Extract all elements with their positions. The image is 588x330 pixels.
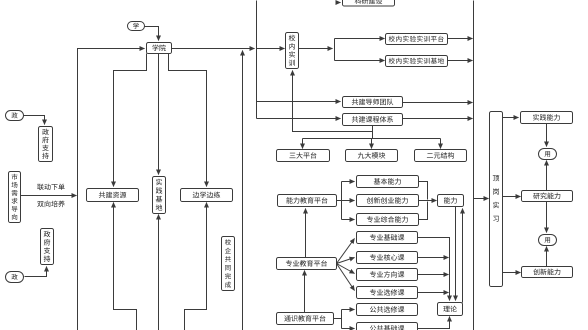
wire 实践能力→用(上) xyxy=(546,124,548,147)
wire 顶岗实习→实践能力 xyxy=(503,117,519,119)
box 基本能力 xyxy=(357,176,419,188)
box 专业方向课 xyxy=(357,269,418,281)
box 专业教育平台 xyxy=(277,258,337,270)
wire 专业教育平台→专业基础课 xyxy=(337,239,355,264)
wire 顶岗实习→创新能力 xyxy=(503,272,521,274)
wire →科研建设 xyxy=(337,2,341,4)
box 实践能力 xyxy=(521,112,573,124)
box 学院 xyxy=(147,43,172,54)
wire B1→共建导师团队 xyxy=(257,101,341,103)
wire 专业教育平台→专业方向课 xyxy=(337,264,355,274)
wire →九大模块 xyxy=(371,139,373,149)
wire 共建导师团队→右总线 xyxy=(403,102,473,104)
wire 能力教育平台→创新创业能力 xyxy=(337,200,355,202)
wire 左侧总线→学院 xyxy=(78,49,145,330)
wire 能力教育平台→基本能力 xyxy=(337,182,355,220)
wire 专业教育平台→专业核心课 xyxy=(337,258,355,264)
wire 分支→校内实验实训基地 xyxy=(335,60,385,62)
wire 右总线→顶岗实习 xyxy=(474,198,489,200)
wire 专业教育平台→专业选修课 xyxy=(337,264,355,291)
box 实践基地 xyxy=(153,177,166,214)
box 政府支持 (lower) xyxy=(41,229,54,265)
box 通识教育平台 xyxy=(277,313,334,325)
wire →三大平台 xyxy=(302,139,304,149)
wire 基本能力汇合 xyxy=(419,182,428,200)
wire 专业综合能力汇合 xyxy=(419,202,428,220)
wire 创新能力→用(下) xyxy=(546,247,548,267)
wire 分支→校内实验实训平台 xyxy=(335,38,385,40)
stadium 用 (upper) xyxy=(539,149,557,160)
box 校内实验实训基地 xyxy=(386,56,448,67)
wire 底部→共建资源 (上箭头) xyxy=(114,203,137,330)
box 专业选修课 xyxy=(357,287,418,299)
wire 右侧纵向总线 xyxy=(473,1,475,330)
stadium 学 xyxy=(128,22,145,31)
box 研究能力 xyxy=(522,191,573,202)
wire 底部→实践基地 (上箭头) xyxy=(158,215,160,330)
box 创新创业能力 xyxy=(357,195,419,207)
box 三大平台 xyxy=(277,150,330,162)
wire 理论→能力 xyxy=(462,209,464,303)
box 公共基础课 xyxy=(357,323,418,330)
wire 政→政府支持(lower) xyxy=(25,267,47,277)
wire 汇合→能力 xyxy=(419,200,437,202)
box 能力教育平台 xyxy=(278,195,337,207)
wire 基地→右总线 xyxy=(448,60,473,62)
wire 学院→右侧(至校内实训总线) xyxy=(172,48,255,50)
wire B1→校内实训 xyxy=(257,48,285,50)
wire 校内实训→分支括号 xyxy=(299,48,333,50)
wire 市场需求导向→左侧总线 xyxy=(21,195,77,197)
box 校内实训 xyxy=(286,33,299,69)
wire 共建课程体系→右总线 xyxy=(403,118,473,120)
wire 专业核心课→收集线 xyxy=(418,257,449,259)
box 专业基础课 xyxy=(357,232,418,244)
wire 专业基础课→理论 (收集线) xyxy=(418,238,450,301)
wire 通识教育平台→公共选修课 xyxy=(334,310,355,329)
box 校内实验实训平台 xyxy=(386,34,448,45)
wire 学院→共建资源 (阶梯) xyxy=(114,54,147,187)
box 科研建设 (顶部截断) xyxy=(343,0,395,6)
box 二元结构 xyxy=(415,150,467,162)
wire 通识教育平台→专业教育平台 xyxy=(304,271,306,313)
stadium 用 (lower) xyxy=(539,235,557,246)
wire 共建课程体系→三分支 xyxy=(372,126,374,139)
wire 分支括号竖线 xyxy=(334,39,336,61)
stadium 政 (bottom-left) xyxy=(6,272,24,283)
wire 专业方向课→收集线 xyxy=(418,274,449,276)
box 校企共同完成 xyxy=(222,237,235,291)
wire 政→政府支持(upper) xyxy=(24,116,45,125)
box 市场需求导向 xyxy=(9,172,21,223)
box 创新能力 xyxy=(522,267,573,278)
wire 研究能力→用(下) xyxy=(546,202,548,233)
wire 能力教育平台→专业综合能力 xyxy=(342,219,355,221)
label 联动下单 xyxy=(37,184,64,190)
box 理论 xyxy=(438,303,463,316)
box 专业核心课 xyxy=(357,252,418,264)
wire 学院→边学边练 (阶梯) xyxy=(169,54,207,187)
box 边学边练 xyxy=(181,189,233,202)
wire 汇合线→校内实训 (上箭头) xyxy=(293,71,373,132)
wire 下方总线→学院横线 (上箭头) xyxy=(242,51,244,330)
wire 能力→理论 xyxy=(455,207,457,301)
wire 底部→边学边练 (上箭头) xyxy=(185,203,207,330)
box 九大模块 xyxy=(346,150,398,162)
wire 顶岗实习→研究能力 xyxy=(503,196,521,198)
wire 研究能力→用(上) xyxy=(546,161,548,191)
box 共建课程体系 xyxy=(343,114,403,126)
stadium 政 (top-left) xyxy=(6,111,24,121)
wire 专业选修课→收集线 xyxy=(418,292,449,294)
box 能力 xyxy=(438,195,464,207)
wire 学院→实践基地 xyxy=(158,54,160,175)
box 顶岗实习 xyxy=(490,112,503,287)
wire B1→共建课程体系 xyxy=(257,118,341,120)
wire 通识教育平台→公共基础课 xyxy=(342,328,355,330)
wire 平台→右总线 xyxy=(448,38,473,40)
wire 三分支横线 xyxy=(303,138,441,140)
box 共建资源 xyxy=(87,189,139,202)
wire 专业教育平台→能力教育平台 xyxy=(305,209,307,258)
box 公共选修课 xyxy=(357,304,418,316)
box 政府支持 (upper) xyxy=(39,127,53,162)
label 双向培养 xyxy=(37,201,65,208)
box 专业综合能力 xyxy=(357,214,419,226)
wire →二元结构 xyxy=(440,139,442,149)
wire 学→学院 xyxy=(145,27,159,41)
wire 公共基础课→理论 (下回路) xyxy=(418,317,450,329)
wire 纵向总线B1 xyxy=(256,1,258,119)
box 共建导师团队 xyxy=(343,97,403,108)
